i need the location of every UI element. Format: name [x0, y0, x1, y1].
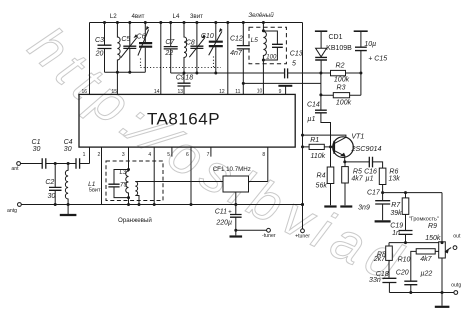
svg-text:R10: R10 [398, 256, 411, 263]
svg-text:C11: C11 [215, 208, 227, 215]
svg-text:3n9: 3n9 [358, 205, 370, 212]
svg-text:110k: 110k [310, 153, 325, 160]
svg-text:µ1: µ1 [366, 176, 374, 183]
svg-text:14: 14 [154, 89, 160, 95]
svg-text:+ C15: + C15 [368, 55, 387, 62]
svg-text:C7: C7 [165, 39, 175, 46]
svg-text:30: 30 [64, 146, 72, 153]
svg-text:75: 75 [120, 181, 128, 188]
svg-text:KB109B: KB109B [326, 45, 352, 52]
svg-text:2SC9014: 2SC9014 [351, 144, 382, 153]
svg-text:R6: R6 [389, 168, 398, 175]
svg-text:22: 22 [164, 50, 173, 57]
svg-text:C9: C9 [176, 75, 185, 82]
svg-text:µ22: µ22 [420, 271, 432, 278]
svg-text:150k: 150k [425, 235, 441, 242]
svg-text:4: 4 [148, 152, 151, 158]
svg-text:3: 3 [122, 152, 125, 158]
svg-text:R4: R4 [317, 172, 326, 179]
svg-text:16: 16 [82, 89, 88, 95]
svg-text:18: 18 [185, 75, 193, 82]
svg-text:R5: R5 [353, 168, 362, 175]
svg-text:12: 12 [219, 89, 225, 95]
svg-text:Оранжевый: Оранжевый [118, 217, 152, 224]
svg-text:20: 20 [95, 51, 104, 58]
svg-text:R1: R1 [310, 137, 319, 144]
svg-text:TA8164P: TA8164P [147, 110, 220, 129]
svg-text:C6: C6 [137, 33, 146, 40]
svg-text:13k: 13k [388, 176, 400, 183]
svg-text:220µ: 220µ [215, 220, 232, 227]
svg-text:5: 5 [167, 152, 170, 158]
svg-text:6: 6 [186, 152, 189, 158]
svg-text:8: 8 [262, 152, 265, 158]
svg-text:9: 9 [279, 89, 282, 95]
svg-text:100: 100 [266, 54, 277, 60]
svg-text:outg: outg [451, 282, 461, 288]
svg-text:antg: antg [7, 208, 17, 214]
svg-text:R2: R2 [336, 62, 345, 69]
svg-text:VT1: VT1 [351, 133, 364, 140]
svg-text:C19: C19 [390, 222, 403, 229]
svg-text:L3: L3 [120, 170, 127, 176]
svg-text:C20: C20 [396, 270, 409, 277]
svg-text:1n: 1n [392, 230, 400, 237]
svg-text:33n: 33n [369, 277, 381, 284]
svg-text:5: 5 [292, 60, 296, 67]
svg-text:7: 7 [207, 152, 210, 158]
svg-text:out: out [453, 234, 461, 240]
svg-text:http:∕∕oslbviad: http:∕∕oslbviad [17, 16, 416, 296]
svg-text:L5: L5 [251, 37, 259, 44]
svg-text:-tuner: -tuner [262, 233, 276, 239]
svg-text:15: 15 [112, 89, 118, 95]
svg-text:2: 2 [98, 152, 101, 158]
svg-text:C10: C10 [201, 33, 214, 40]
svg-text:56k: 56k [316, 182, 328, 189]
svg-text:C17: C17 [367, 189, 381, 196]
svg-text:10µ: 10µ [364, 41, 376, 48]
svg-text:4k7: 4k7 [420, 256, 432, 263]
svg-text:µ1: µ1 [307, 116, 315, 123]
svg-text:R7: R7 [391, 202, 401, 209]
svg-text:R9: R9 [428, 223, 437, 230]
svg-text:ant: ant [11, 166, 19, 172]
svg-text:2k7: 2k7 [373, 256, 386, 263]
svg-text:4вит: 4вит [131, 13, 144, 20]
svg-text:C16: C16 [364, 168, 377, 175]
svg-text:C13: C13 [290, 51, 303, 58]
svg-text:CF1 10.7MHz: CF1 10.7MHz [213, 166, 251, 173]
svg-text:100k: 100k [334, 77, 350, 84]
svg-text:10: 10 [257, 89, 263, 95]
svg-text:C5: C5 [121, 36, 130, 43]
svg-text:L2: L2 [110, 13, 117, 20]
svg-text:30: 30 [48, 193, 56, 200]
svg-text:L4: L4 [173, 13, 180, 20]
svg-text:"Громкость": "Громкость" [409, 217, 439, 223]
svg-text:39k: 39k [390, 210, 402, 217]
svg-text:+tuner: +tuner [295, 234, 310, 240]
svg-text:C2: C2 [45, 179, 54, 186]
svg-text:13: 13 [178, 89, 184, 95]
svg-text:1: 1 [83, 152, 86, 158]
svg-text:100k: 100k [336, 99, 352, 106]
svg-text:C14: C14 [307, 101, 320, 108]
svg-text:5вит: 5вит [89, 188, 101, 194]
svg-text:R3: R3 [337, 84, 346, 91]
svg-text:+: + [228, 210, 232, 216]
svg-text:30: 30 [33, 146, 41, 153]
svg-text:C12: C12 [230, 36, 243, 43]
svg-text:3вит: 3вит [190, 13, 203, 20]
svg-text:4n7: 4n7 [230, 50, 243, 57]
svg-text:C3: C3 [95, 37, 104, 44]
svg-text:11: 11 [235, 89, 240, 95]
svg-text:4k7: 4k7 [351, 176, 363, 183]
svg-text:C8: C8 [186, 39, 195, 46]
svg-text:Зелёный: Зелёный [248, 12, 274, 19]
svg-text:CD1: CD1 [328, 34, 342, 41]
